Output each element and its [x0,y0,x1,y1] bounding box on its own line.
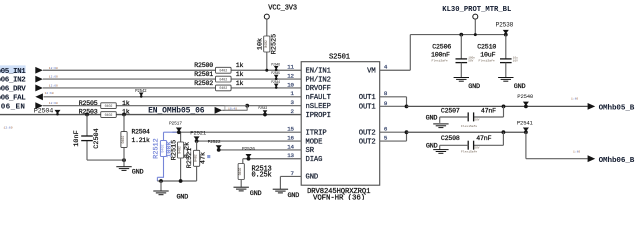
svg-text:06_EN: 06_EN [1,103,26,111]
svg-text:C2510: C2510 [477,43,496,50]
svg-text:R2521: R2521 [186,148,194,168]
svg-text:0402: 0402 [239,168,243,176]
svg-text:FlexiSafe: FlexiSafe [461,124,477,128]
svg-text:R2505: R2505 [79,100,98,107]
svg-text:GND: GND [288,192,300,200]
svg-text:12:60: 12:60 [49,76,58,79]
svg-text:VQFN-HR (36): VQFN-HR (36) [313,195,365,201]
svg-text:PH/IN2: PH/IN2 [306,76,331,84]
svg-text:DRVOFF: DRVOFF [306,85,331,93]
svg-text:0402: 0402 [179,146,183,154]
svg-text:13: 13 [287,152,294,159]
svg-text:IPROPI: IPROPI [306,112,331,120]
svg-text:OUT2: OUT2 [359,138,376,146]
svg-text:0402: 0402 [122,136,126,144]
svg-text:12:60: 12:60 [49,102,58,105]
svg-text:GND: GND [306,174,319,182]
svg-text:P2517: P2517 [169,121,182,127]
svg-text:FlexiSafe: FlexiSafe [461,149,477,153]
svg-text:GND: GND [426,143,438,151]
svg-text:0402: 0402 [105,114,113,118]
svg-text:nFAULT: nFAULT [306,94,332,102]
svg-text:GND: GND [468,83,480,91]
svg-text:OMhb06_IN2: OMhb06_IN2 [0,77,26,85]
svg-text:47nF: 47nF [476,135,491,142]
svg-text:C2504: C2504 [93,128,101,148]
svg-text:OMhb06_FAL: OMhb06_FAL [0,94,26,102]
svg-text:47nF: 47nF [481,108,496,115]
svg-text:50V: 50V [474,118,479,121]
svg-text:OUT2: OUT2 [359,129,376,137]
svg-text:DIAG: DIAG [306,156,323,164]
svg-text:P2543: P2543 [258,106,267,110]
svg-text:11: 11 [287,64,294,71]
svg-text:P2546: P2546 [271,62,280,66]
svg-text:EN_OMHb05_06: EN_OMHb05_06 [148,107,205,116]
svg-text:P2538: P2538 [496,22,514,29]
svg-text:R2504: R2504 [132,128,151,135]
svg-text:nSLEEP: nSLEEP [306,103,331,111]
svg-text:0402: 0402 [195,154,199,162]
svg-text:16V: 16V [513,59,518,62]
svg-text:R2501: R2501 [194,71,213,78]
svg-text:10uF: 10uF [480,51,495,58]
svg-text:R2502: R2502 [194,80,213,87]
svg-text:MODE: MODE [306,138,323,146]
svg-text:KL30_PROT_MTR_BL: KL30_PROT_MTR_BL [442,6,511,14]
svg-text:OUT1: OUT1 [359,94,376,102]
svg-text:1k: 1k [236,71,244,78]
svg-text:P2540: P2540 [517,93,534,100]
svg-text:10nF: 10nF [73,130,81,146]
svg-text:OUT1: OUT1 [359,104,376,112]
svg-text:GND: GND [426,115,438,123]
svg-text:15: 15 [287,126,294,133]
svg-text:OMhb05_B: OMhb05_B [599,105,635,113]
svg-text:0402: 0402 [265,40,269,48]
svg-text:10:40: 10:40 [228,108,237,111]
svg-text:0402: 0402 [219,78,227,82]
svg-text:10k: 10k [257,38,265,50]
svg-text:P2522: P2522 [208,139,221,145]
svg-text:100nF: 100nF [431,51,450,58]
svg-text:12:60: 12:60 [49,84,58,87]
svg-text:50V: 50V [468,59,473,62]
svg-text:GND: GND [177,194,189,201]
svg-text:VCC_3V3: VCC_3V3 [268,5,297,13]
svg-text:12:60: 12:60 [45,92,54,95]
svg-text:1k: 1k [122,100,130,107]
svg-text:C2508: C2508 [441,135,460,142]
svg-text:GND: GND [250,190,262,198]
svg-text:0.25k: 0.25k [252,172,272,180]
svg-text:R2515: R2515 [170,140,178,160]
svg-text:1k: 1k [236,80,244,87]
svg-text:C2506: C2506 [432,43,451,50]
svg-text:12: 12 [287,73,294,80]
svg-text:R2525: R2525 [270,34,278,54]
svg-text:P2504: P2504 [34,108,54,116]
svg-text:FlexiSafe: FlexiSafe [432,58,448,62]
svg-text:1:80: 1:80 [573,151,580,154]
svg-text:SR: SR [306,147,315,155]
svg-text:R2512: R2512 [153,138,161,158]
svg-text:47k: 47k [200,152,208,164]
svg-text:GND: GND [514,83,526,91]
svg-text:14: 14 [287,143,294,150]
svg-text:50V: 50V [474,147,479,150]
svg-text:OMhb06_B: OMhb06_B [599,157,635,165]
svg-text:12:60: 12:60 [4,126,13,129]
svg-text:ITRIP: ITRIP [306,129,327,137]
svg-text:C2507: C2507 [441,108,460,115]
svg-text:0402: 0402 [219,87,227,91]
svg-text:P2526: P2526 [242,146,255,152]
svg-text:FlexiSafe: FlexiSafe [479,58,495,62]
svg-text:R2500: R2500 [194,62,213,69]
svg-text:1:80: 1:80 [571,98,578,101]
svg-text:P2545: P2545 [271,71,280,75]
svg-text:OMhb06_DRV: OMhb06_DRV [0,86,26,94]
svg-text:0402: 0402 [219,69,227,73]
svg-text:0402: 0402 [105,105,113,109]
svg-text:10: 10 [287,81,294,88]
svg-text:GND: GND [132,169,144,177]
svg-text:P2544: P2544 [271,80,280,84]
svg-text:S2501: S2501 [329,54,350,62]
svg-text:P2541: P2541 [517,119,534,126]
svg-text:12:60: 12:60 [49,67,58,70]
svg-text:P2521: P2521 [190,129,207,136]
svg-text:16: 16 [287,134,294,141]
svg-text:VM: VM [367,67,375,75]
svg-text:OMhb05_IN1: OMhb05_IN1 [0,68,26,76]
svg-text:EN/IN1: EN/IN1 [306,67,331,75]
svg-text:1k: 1k [236,62,244,69]
svg-text:1.21k: 1.21k [132,137,151,144]
